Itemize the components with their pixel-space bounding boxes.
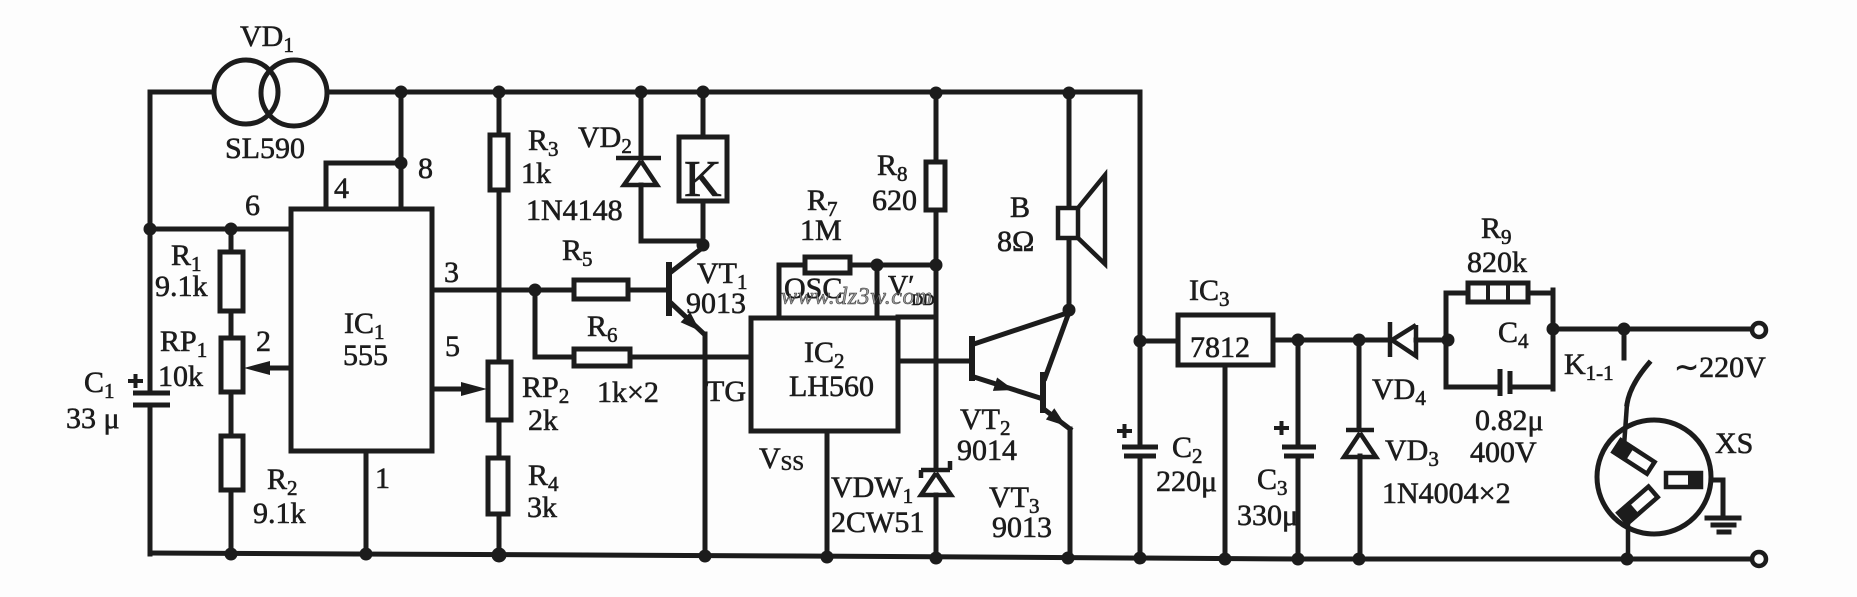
svg-text:1M: 1M xyxy=(800,214,842,247)
svg-text:400V: 400V xyxy=(1470,436,1537,469)
svg-text:SL590: SL590 xyxy=(225,132,305,165)
svg-text:1N4004×2: 1N4004×2 xyxy=(1382,477,1511,510)
svg-text:B: B xyxy=(1010,191,1030,224)
svg-text:3: 3 xyxy=(444,256,459,289)
svg-text:330μ: 330μ xyxy=(1237,499,1298,532)
svg-text:www.dz3w.com: www.dz3w.com xyxy=(781,284,933,310)
svg-text:1N4148: 1N4148 xyxy=(526,194,623,227)
svg-text:1: 1 xyxy=(375,462,390,495)
svg-text:9013: 9013 xyxy=(992,511,1052,544)
svg-text:8: 8 xyxy=(418,152,433,185)
svg-text:0.82μ: 0.82μ xyxy=(1475,404,1544,437)
svg-text:9013: 9013 xyxy=(686,287,746,320)
svg-text:220μ: 220μ xyxy=(1156,465,1217,498)
svg-text:2CW51: 2CW51 xyxy=(831,506,924,539)
svg-text:K: K xyxy=(684,151,722,208)
svg-text:10k: 10k xyxy=(158,360,203,393)
svg-text:5: 5 xyxy=(445,330,460,363)
svg-text:7812: 7812 xyxy=(1190,331,1250,364)
svg-text:XS: XS xyxy=(1715,427,1753,460)
svg-text:555: 555 xyxy=(343,339,388,372)
svg-text:620: 620 xyxy=(872,184,917,217)
svg-text:2: 2 xyxy=(256,325,271,358)
svg-text:9.1k: 9.1k xyxy=(155,270,208,303)
svg-text:TG: TG xyxy=(706,375,746,408)
svg-text:VDW1: VDW1 xyxy=(831,471,913,508)
svg-text:9014: 9014 xyxy=(957,434,1017,467)
svg-text:8Ω: 8Ω xyxy=(997,225,1034,258)
svg-text:820k: 820k xyxy=(1467,246,1527,279)
svg-text:1k×2: 1k×2 xyxy=(597,376,659,409)
svg-text:∼220V: ∼220V xyxy=(1674,351,1766,384)
svg-text:2k: 2k xyxy=(528,404,558,437)
svg-text:3k: 3k xyxy=(527,491,557,524)
svg-text:LH560: LH560 xyxy=(789,370,874,403)
svg-text:4: 4 xyxy=(334,172,349,205)
svg-text:1k: 1k xyxy=(521,157,551,190)
svg-text:33 μ: 33 μ xyxy=(66,402,120,435)
svg-text:9.1k: 9.1k xyxy=(253,497,306,530)
svg-text:6: 6 xyxy=(245,189,260,222)
